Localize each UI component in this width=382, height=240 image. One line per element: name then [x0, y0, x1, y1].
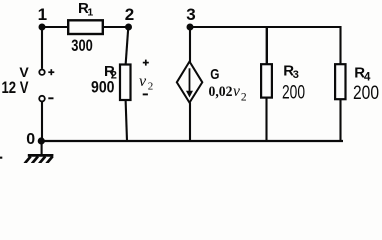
wire R4 bottom to ground rail [339, 99, 341, 141]
resistor R2 body [120, 65, 131, 101]
svg-text:0: 0 [26, 131, 35, 148]
wire node1 down to source + terminal [41, 27, 43, 69]
G source arrowhead [186, 91, 193, 98]
svg-text:3: 3 [186, 5, 195, 24]
resistor R3 body [261, 64, 272, 97]
voltage source V terminal + circle [39, 70, 44, 75]
ground bar [28, 154, 54, 157]
wire source - terminal down to node0 [41, 102, 43, 141]
wire node2 down to R2 [126, 27, 129, 65]
svg-text:1: 1 [87, 6, 93, 18]
label R1 [78, 0, 93, 18]
svg-text:G: G [210, 66, 219, 83]
svg-text:v: v [233, 83, 240, 100]
node 2 junction dot [125, 24, 132, 31]
svg-text:4: 4 [364, 72, 371, 84]
node 1 junction dot [39, 24, 46, 31]
dependent source G diamond [177, 62, 203, 103]
svg-text:v: v [139, 73, 147, 90]
svg-text:V: V [19, 64, 29, 80]
label R2 [104, 63, 117, 82]
ground stem wire [41, 141, 43, 155]
svg-text:200: 200 [353, 83, 379, 104]
minus sign at source bottom terminal [48, 97, 53, 99]
svg-text:1: 1 [38, 5, 47, 24]
top rail wire node3 to right corner and down to R4 [190, 27, 341, 65]
wire R2 bottom to ground rail [126, 100, 127, 141]
stray scan mark bottom left [0, 157, 2, 159]
svg-text:12 V: 12 V [2, 79, 29, 97]
wire R1 right to node2 [103, 26, 129, 28]
label R3 [283, 62, 299, 81]
bottom ground rail wire [41, 140, 343, 142]
wire R3 bottom to ground rail [265, 98, 267, 141]
svg-text:300: 300 [71, 36, 93, 55]
G source arrow shaft [189, 68, 191, 91]
ground hatch strokes [25, 156, 53, 163]
wire node3 down to G source [189, 27, 191, 62]
wire tap from top rail down to R3 [266, 27, 268, 65]
label R4 [354, 65, 371, 84]
svg-text:200: 200 [282, 81, 305, 103]
svg-text:3: 3 [293, 69, 299, 81]
node 3 junction dot [187, 24, 194, 31]
minus sign for v2 polarity [143, 93, 148, 95]
wire node1 to R1 left [42, 26, 69, 28]
node 0 junction dot [38, 137, 45, 144]
resistor R1 body [68, 20, 103, 34]
svg-text:2: 2 [125, 5, 134, 24]
svg-text:2: 2 [241, 91, 247, 103]
label v2 [139, 73, 153, 92]
svg-text:0,02: 0,02 [209, 84, 233, 100]
voltage source V terminal - circle [39, 96, 45, 102]
wire G source bottom to ground rail [189, 103, 191, 142]
value label 0,02 v2 [209, 83, 247, 103]
plus sign for v2 polarity [143, 60, 149, 66]
svg-text:2: 2 [148, 81, 154, 93]
plus sign at source top terminal [48, 69, 54, 75]
resistor R4 body [335, 64, 345, 99]
svg-text:900: 900 [91, 77, 115, 96]
